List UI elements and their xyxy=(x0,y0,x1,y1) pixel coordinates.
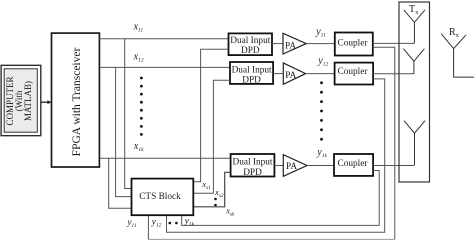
svg-text:PA: PA xyxy=(285,41,296,51)
svg-text:Dual Input: Dual Input xyxy=(232,65,272,75)
svg-text:Coupler: Coupler xyxy=(338,67,369,77)
svg-text:MATLAB): MATLAB) xyxy=(23,81,33,121)
svg-text:Coupler: Coupler xyxy=(338,39,369,49)
svg-text:DPD: DPD xyxy=(243,168,262,178)
svg-text:Dual Input: Dual Input xyxy=(230,36,270,46)
svg-text:CTS Block: CTS Block xyxy=(139,192,181,202)
svg-text:PA: PA xyxy=(285,71,296,81)
svg-text:DPD: DPD xyxy=(242,75,261,85)
svg-text:Dual Input: Dual Input xyxy=(232,158,272,168)
svg-text:DPD: DPD xyxy=(241,46,260,56)
svg-text:FPGA with Transceiver: FPGA with Transceiver xyxy=(71,48,83,157)
svg-text:PA: PA xyxy=(286,162,297,172)
svg-text:Coupler: Coupler xyxy=(338,159,369,169)
